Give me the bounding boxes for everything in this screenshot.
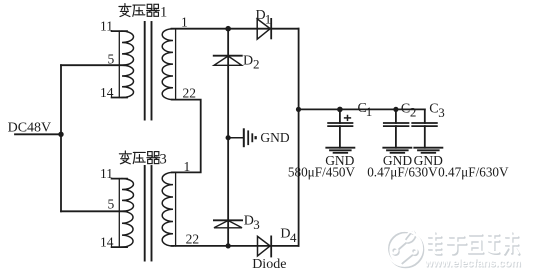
transformer T1 pin11 stub xyxy=(112,30,127,32)
ground under C2 xyxy=(383,147,411,149)
label 变压器1 (drawn strokes) xyxy=(119,4,159,17)
wire: middle vertical branch (D2/GND/D3) xyxy=(227,29,229,246)
wire: left bus vertical xyxy=(60,65,62,211)
svg-text:14: 14 xyxy=(100,85,114,100)
svg-text:DC48V: DC48V xyxy=(8,121,52,136)
svg-text:GND: GND xyxy=(260,130,289,145)
svg-text:www.elecfans.com: www.elecfans.com xyxy=(424,258,521,270)
watermark logo xyxy=(388,231,423,267)
svg-text:14: 14 xyxy=(100,234,114,249)
svg-text:3: 3 xyxy=(253,217,259,232)
ground tap GND (middle) xyxy=(228,137,242,139)
node: GND junction xyxy=(226,135,231,140)
svg-text:1: 1 xyxy=(160,5,167,21)
wire: right bus vertical xyxy=(298,29,300,246)
svg-text:0.47μF/630V: 0.47μF/630V xyxy=(367,164,438,179)
器 xyxy=(147,4,160,16)
svg-text:11: 11 xyxy=(100,19,113,34)
wire: top rail from T1 pin1 to right corner xyxy=(172,28,299,30)
label 变压器3 (drawn strokes) xyxy=(119,151,159,164)
transformer T1 secondary winding xyxy=(162,29,173,100)
svg-text:D: D xyxy=(244,214,254,229)
svg-text:22: 22 xyxy=(186,231,200,246)
node: DC48V junction xyxy=(58,132,63,137)
svg-text:22: 22 xyxy=(183,86,197,101)
svg-text:D: D xyxy=(243,54,253,69)
wire: T1 pin5 lead xyxy=(61,64,127,66)
C1 polarity plus xyxy=(345,117,351,119)
ground under C3 xyxy=(414,147,442,149)
transformer T3 pin14 stub xyxy=(112,246,127,248)
svg-text:11: 11 xyxy=(100,166,113,181)
capacitor C2 xyxy=(395,109,397,123)
transformer T1 primary winding xyxy=(122,31,134,97)
capacitor C3 xyxy=(424,109,426,123)
wire: DC48V input xyxy=(15,133,61,135)
svg-text:1: 1 xyxy=(265,12,272,27)
diode D2 xyxy=(214,56,242,65)
svg-text:2: 2 xyxy=(410,105,417,120)
transformer T3 pin11 stub xyxy=(112,178,127,180)
svg-text:1: 1 xyxy=(184,159,191,174)
wire: T1 pin22 to T3 pin1 connector xyxy=(172,100,201,173)
diode D1 xyxy=(257,19,270,39)
svg-text:D: D xyxy=(280,226,290,241)
node: C2 junction xyxy=(393,107,398,112)
transformer T3 primary winding xyxy=(122,179,134,247)
svg-text:1: 1 xyxy=(366,104,373,119)
node: top junction xyxy=(225,26,231,32)
svg-text:C: C xyxy=(429,102,438,117)
svg-text:1: 1 xyxy=(181,15,188,30)
diode D3 xyxy=(214,221,242,228)
transformer T3 secondary winding xyxy=(162,172,173,246)
node: C1 junction xyxy=(337,107,343,113)
transformer T3 core xyxy=(144,166,146,261)
svg-text:2: 2 xyxy=(253,57,260,72)
transformer T1 core xyxy=(144,22,146,120)
wire: capacitor rail xyxy=(298,108,425,110)
svg-text:C: C xyxy=(401,101,410,116)
transformer T1 pin14 stub xyxy=(112,97,127,99)
svg-text:Diode: Diode xyxy=(252,257,286,272)
svg-text:580μF/450V: 580μF/450V xyxy=(288,164,356,179)
wire: bottom rail from T3 pin22 to right corner xyxy=(172,245,299,247)
diode D4 xyxy=(258,236,271,256)
node: bottom junction xyxy=(226,243,231,248)
svg-text:5: 5 xyxy=(108,197,115,212)
变 xyxy=(124,4,126,7)
svg-text:3: 3 xyxy=(160,152,167,168)
svg-text:3: 3 xyxy=(438,105,445,120)
svg-text:4: 4 xyxy=(290,230,297,245)
node: rail left junction xyxy=(296,107,301,112)
wire: T3 pin5 lead xyxy=(61,210,127,212)
watermark title 电子发烧友 (stylized, embossed) xyxy=(429,234,519,255)
ground under C1 xyxy=(326,147,354,149)
capacitor C1 xyxy=(339,109,341,123)
压 xyxy=(133,5,145,16)
svg-text:5: 5 xyxy=(108,52,115,67)
svg-text:0.47μF/630V: 0.47μF/630V xyxy=(438,164,509,179)
